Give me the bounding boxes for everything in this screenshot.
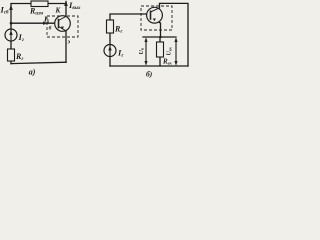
svg-text:К: К [55,7,62,15]
wire: circuit a collector lead [65,2,67,17]
wire: circuit b bottom [110,65,188,67]
wire: circuit a left vertical (top corner to source) [11,4,66,30]
svg-text:б): б) [146,70,153,79]
resistor Rизм (circuit a, top) [31,1,48,7]
svg-text:б: б [49,25,52,32]
svg-text:Rвх: Rвх [162,58,173,66]
svg-text:Iг: Iг [117,48,123,59]
transistor VT (circuit a) [55,16,71,32]
wire: Rвх top lead [159,37,161,42]
wire: Rвх bottom lead [159,57,161,66]
svg-text:Uвх: Uвх [167,46,173,55]
wire: circuit a Rg-to-bottom [10,61,12,64]
node junction emitter / middle wire [159,36,161,38]
emitter arrow (points to base bar, pnp) [61,27,64,30]
current source Iг (circuit a) [5,29,17,41]
svg-text:Iвых: Iвых [68,0,81,11]
arrow Iб (circuit a, base wire, right) [43,22,48,25]
resistor Rвх (circuit b) [157,42,164,57]
svg-text:Rг: Rг [114,25,122,35]
resistor Rг (circuit a) [8,49,15,61]
svg-text:Uк: Uк [139,47,145,54]
resistor Rг (circuit b) [107,20,114,33]
wire: circuit b emitter lead [151,18,161,37]
svg-text:Iсб: Iсб [0,5,9,16]
arrow Iсб (circuit a, left wire, up) [9,5,13,11]
wire: circuit a emitter vertical [65,31,67,63]
wire: circuit a bottom [11,62,66,63]
wire: circuit b collector lead and top [160,3,189,66]
wire: circuit b middle [143,36,176,38]
svg-text:э: э [67,40,71,46]
svg-text:Iг: Iг [18,32,24,43]
wire: circuit a source-to-Rg [10,41,12,49]
wire: circuit b source-to-bottom [109,57,111,67]
measure branch right (arrows both ends) [175,39,177,65]
measure branch left (arrows both ends) [145,39,147,65]
emitter arrow circuit b [153,19,156,22]
node junction base wire / left wire [10,22,13,25]
wire: circuit b Rг-to-source [109,33,111,45]
wire: circuit a base wire [11,22,59,24]
arrow Iвых (circuit a, collector lead, up) [64,1,68,7]
svg-text:Rг: Rг [15,52,23,62]
transistor VT (circuit b) [147,7,163,23]
dashed box circuit b [141,6,172,30]
dashed box circuit a [47,16,78,37]
svg-text:а): а) [29,68,36,77]
current source Iг (circuit b) [104,45,116,57]
wire: circuit b base wire with top corner [110,14,151,20]
svg-text:Rизм: Rизм [29,7,44,17]
